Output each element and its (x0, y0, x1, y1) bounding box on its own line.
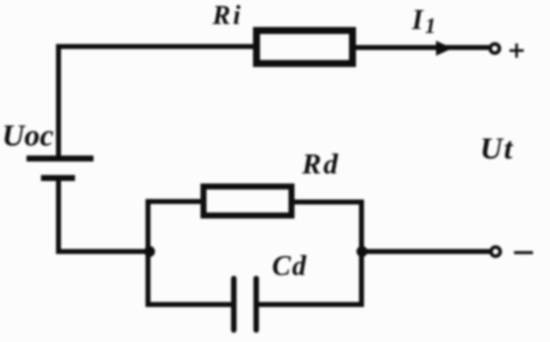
wire: node A down-left branch to capacitor Cd left plate (148, 249, 232, 305)
plus sign at positive terminal (510, 44, 524, 58)
wire: resistor Ri right pin to positive terminal (353, 45, 489, 50)
svg-text:Rd: Rd (301, 149, 340, 181)
capacitor Cd right plate (253, 279, 259, 331)
minus sign at negative terminal (514, 251, 533, 254)
node B junction dot (357, 246, 368, 257)
svg-text:Ut: Ut (480, 131, 514, 166)
wire: node B down to capacitor Cd right plate (257, 249, 362, 305)
wire: node A up-left branch to resistor Rd left pin (148, 202, 202, 255)
svg-text:Uoc: Uoc (2, 118, 54, 153)
wire: battery negative down and right to node A (59, 180, 151, 252)
capacitor Cd left plate (231, 279, 237, 331)
current arrow I1 head (436, 41, 453, 56)
resistor Rd (204, 187, 292, 216)
svg-text:Ri: Ri (212, 0, 244, 30)
wire: resistor Rd right pin right and down to node B (293, 202, 362, 254)
battery Uoc long plate (positive) (27, 156, 94, 162)
battery Uoc short plate (negative) (41, 175, 75, 181)
negative output terminal circle (491, 247, 500, 256)
wire: battery positive up and right to resistor Ri left pin (59, 47, 255, 157)
resistor Ri (257, 31, 353, 64)
positive output terminal circle (490, 44, 499, 53)
svg-text:Cd: Cd (272, 251, 308, 282)
node A junction dot (144, 246, 155, 257)
wire: node B to negative terminal (362, 249, 491, 254)
svg-text:I1: I1 (411, 5, 436, 38)
